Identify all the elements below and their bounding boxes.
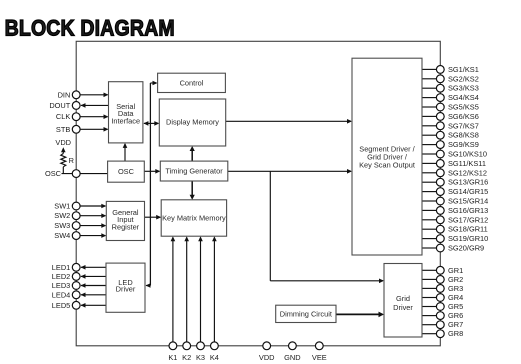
wire Dimming Circuit to Grid Driver bbox=[336, 313, 383, 315]
pin SG17/GR12 bbox=[436, 216, 444, 224]
wire Segment Driver to SG16 bbox=[422, 209, 437, 211]
pin LED3 bbox=[72, 282, 80, 290]
pin GR1 bbox=[436, 266, 444, 274]
pin DIN bbox=[72, 91, 80, 99]
block Control bbox=[158, 73, 226, 92]
svg-text:SG8/KS8: SG8/KS8 bbox=[448, 131, 479, 140]
pin VEE (bottom) bbox=[315, 342, 323, 350]
wire Segment Driver to SG6 bbox=[422, 115, 437, 117]
svg-text:Interface: Interface bbox=[111, 116, 140, 125]
pin GR7 bbox=[436, 321, 444, 329]
svg-text:Key Matrix Memory: Key Matrix Memory bbox=[162, 213, 226, 222]
wire K3 to Key Matrix Memory bbox=[200, 238, 202, 346]
wire K4 to Key Matrix Memory bbox=[213, 238, 215, 346]
svg-text:SW2: SW2 bbox=[54, 211, 70, 220]
block Display Memory bbox=[159, 99, 225, 146]
svg-text:STB: STB bbox=[56, 125, 70, 134]
pin SW1 bbox=[72, 202, 80, 210]
wire Segment Driver to SG2 bbox=[422, 78, 437, 80]
svg-text:SG9/KS9: SG9/KS9 bbox=[448, 140, 479, 149]
wire Segment Driver to SG7 bbox=[422, 125, 437, 127]
pin CLK bbox=[72, 113, 80, 121]
wire Segment Driver to SG12 bbox=[422, 172, 437, 174]
wire DIN to Serial Data Interface bbox=[80, 94, 108, 96]
svg-text:Control: Control bbox=[180, 78, 204, 87]
block Timing Generator bbox=[160, 161, 228, 181]
wire Timing Generator branch to Grid Driver bbox=[269, 171, 271, 280]
svg-text:Driver: Driver bbox=[393, 303, 413, 312]
wire LED Driver to LED1 bbox=[81, 266, 106, 268]
svg-text:R: R bbox=[69, 156, 74, 165]
pin LED5 bbox=[72, 301, 80, 309]
svg-text:SG12/KS12: SG12/KS12 bbox=[448, 168, 487, 177]
chip boundary box bbox=[76, 41, 440, 346]
wire Segment Driver to SG15 bbox=[422, 200, 437, 202]
wire Segment Driver to SG18 bbox=[422, 228, 437, 230]
wire Timing Generator to Key Matrix Memory bbox=[191, 181, 193, 198]
wire OSC pin to OSC block bbox=[62, 173, 108, 175]
wire Segment Driver to SG1 bbox=[422, 68, 437, 70]
svg-text:Grid: Grid bbox=[396, 294, 410, 303]
wire Grid Driver to GR2 bbox=[422, 278, 437, 280]
wire OSC block to Timing Generator bbox=[144, 170, 159, 172]
pin SW4 bbox=[72, 232, 80, 240]
pin SW2 bbox=[72, 212, 80, 220]
pin K1 (bottom) bbox=[169, 342, 177, 350]
svg-text:GND: GND bbox=[284, 353, 300, 362]
svg-text:LED2: LED2 bbox=[52, 272, 71, 281]
svg-text:SG18/GR11: SG18/GR11 bbox=[448, 225, 488, 234]
pin LED1 bbox=[72, 263, 80, 271]
wire Segment Driver to SG11 bbox=[422, 162, 437, 164]
pin SG18/GR11 bbox=[436, 225, 444, 233]
svg-text:SG16/GR13: SG16/GR13 bbox=[448, 206, 488, 215]
svg-text:SG2/KS2: SG2/KS2 bbox=[448, 74, 479, 83]
block Segment Driver / Grid Driver / Key Scan Output bbox=[352, 58, 422, 255]
pin K3 (bottom) bbox=[197, 342, 205, 350]
pin GND (bottom) bbox=[289, 342, 297, 350]
wire Timing Generator to Display Memory bbox=[191, 148, 193, 162]
svg-text:Dimming Circuit: Dimming Circuit bbox=[280, 309, 332, 318]
wire LED Driver to LED5 bbox=[81, 304, 106, 306]
svg-text:SW1: SW1 bbox=[54, 202, 70, 211]
wire Segment Driver to SG14 bbox=[422, 191, 437, 193]
svg-text:SG1/KS1: SG1/KS1 bbox=[448, 65, 479, 74]
svg-text:OSC: OSC bbox=[118, 167, 135, 176]
wire LED Driver to LED4 bbox=[81, 294, 106, 296]
wire Segment Driver to SG3 bbox=[422, 87, 437, 89]
pin SW3 bbox=[72, 222, 80, 230]
pin VDD (bottom) bbox=[263, 342, 271, 350]
wire SW4 to General Input Register bbox=[80, 235, 105, 237]
svg-text:VDD: VDD bbox=[259, 353, 275, 362]
wire Grid Driver to GR5 bbox=[422, 306, 437, 308]
wire Serial Data Interface to DOUT bbox=[81, 104, 109, 106]
pin SG8/KS8 bbox=[436, 131, 444, 139]
svg-text:Timing Generator: Timing Generator bbox=[165, 167, 223, 176]
pin SG11/KS11 bbox=[436, 160, 444, 168]
pin SG2/KS2 bbox=[436, 75, 444, 83]
svg-text:GR2: GR2 bbox=[448, 275, 463, 284]
wire General Input Register to Key Matrix Memory bbox=[145, 216, 161, 218]
pin K4 (bottom) bbox=[211, 342, 219, 350]
svg-text:SG7/KS7: SG7/KS7 bbox=[448, 121, 479, 130]
block LED Driver bbox=[106, 263, 145, 312]
svg-text:SG5/KS5: SG5/KS5 bbox=[448, 103, 479, 112]
svg-text:SW4: SW4 bbox=[54, 231, 70, 240]
svg-text:GR8: GR8 bbox=[448, 329, 463, 338]
pin GR5 bbox=[436, 303, 444, 311]
wire Segment Driver to SG13 bbox=[422, 181, 437, 183]
pin STB bbox=[72, 125, 80, 133]
pin SG6/KS6 bbox=[436, 113, 444, 121]
svg-text:K2: K2 bbox=[182, 353, 191, 362]
wire Segment Driver to SG4 bbox=[422, 97, 437, 99]
svg-text:OSC: OSC bbox=[45, 169, 62, 178]
pin SG16/GR13 bbox=[436, 207, 444, 215]
svg-text:VEE: VEE bbox=[312, 353, 327, 362]
svg-text:GR1: GR1 bbox=[448, 266, 463, 275]
wire SW3 to General Input Register bbox=[80, 225, 105, 227]
block Dimming Circuit bbox=[276, 305, 336, 322]
wire SW1 to General Input Register bbox=[80, 205, 105, 207]
wire K2 to Key Matrix Memory bbox=[186, 238, 188, 346]
wire Grid Driver to GR7 bbox=[422, 324, 437, 326]
pin DOUT bbox=[72, 102, 80, 110]
pin LED2 bbox=[72, 273, 80, 281]
svg-text:DOUT: DOUT bbox=[49, 101, 70, 110]
wire OSC block to Serial Data Interface bbox=[124, 144, 126, 161]
pin GR8 bbox=[436, 330, 444, 338]
svg-text:SG10/KS10: SG10/KS10 bbox=[448, 150, 487, 159]
wire K1 to Key Matrix Memory bbox=[172, 238, 174, 346]
svg-text:SG19/GR10: SG19/GR10 bbox=[448, 234, 488, 243]
svg-text:SG17/GR12: SG17/GR12 bbox=[448, 215, 488, 224]
wire Segment Driver to SG20 bbox=[422, 247, 437, 249]
svg-text:LED3: LED3 bbox=[52, 281, 71, 290]
block OSC bbox=[108, 161, 145, 182]
pin SG13/GR16 bbox=[436, 178, 444, 186]
svg-text:SG11/KS11: SG11/KS11 bbox=[448, 159, 486, 168]
svg-text:BLOCK DIAGRAM: BLOCK DIAGRAM bbox=[5, 16, 175, 41]
wire Display Memory to Segment Driver bbox=[226, 120, 351, 122]
pin SG20/GR9 bbox=[436, 244, 444, 252]
svg-text:LED5: LED5 bbox=[52, 301, 71, 310]
pin SG12/KS12 bbox=[436, 169, 444, 177]
svg-text:LED4: LED4 bbox=[52, 290, 71, 299]
svg-text:SG4/KS4: SG4/KS4 bbox=[448, 93, 479, 102]
wire Grid Driver to GR8 bbox=[422, 333, 437, 335]
wire CLK to Serial Data Interface bbox=[80, 116, 108, 118]
svg-text:K3: K3 bbox=[196, 353, 205, 362]
svg-text:CLK: CLK bbox=[56, 112, 70, 121]
pin LED4 bbox=[72, 291, 80, 299]
wire Segment Driver to SG10 bbox=[422, 153, 437, 155]
svg-text:SG6/KS6: SG6/KS6 bbox=[448, 112, 479, 121]
svg-text:K1: K1 bbox=[168, 353, 177, 362]
svg-text:SG13/GR16: SG13/GR16 bbox=[448, 178, 488, 187]
pin SG10/KS10 bbox=[436, 150, 444, 158]
svg-text:VDD: VDD bbox=[55, 138, 71, 147]
svg-text:Key Scan Output: Key Scan Output bbox=[359, 160, 415, 169]
wire Segment Driver to SG9 bbox=[422, 144, 437, 146]
bus wire to LED Driver bbox=[146, 285, 150, 287]
svg-text:DIN: DIN bbox=[58, 90, 71, 99]
pin GR6 bbox=[436, 312, 444, 320]
pin GR3 bbox=[436, 285, 444, 293]
wire Segment Driver to SG5 bbox=[422, 106, 437, 108]
bus wire to Control bbox=[149, 83, 151, 286]
wire Grid Driver to GR4 bbox=[422, 297, 437, 299]
pin SG4/KS4 bbox=[436, 94, 444, 102]
wire Segment Driver to SG19 bbox=[422, 238, 437, 240]
wire Timing Generator to Segment Driver bbox=[228, 170, 351, 172]
pin SG5/KS5 bbox=[436, 103, 444, 111]
svg-text:SG20/GR9: SG20/GR9 bbox=[448, 244, 484, 253]
wire Serial Data Interface to Display Memory (bidirectional) bbox=[144, 122, 158, 124]
pin SG19/GR10 bbox=[436, 235, 444, 243]
svg-text:GR4: GR4 bbox=[448, 293, 463, 302]
svg-text:GR7: GR7 bbox=[448, 320, 463, 329]
pin SG15/GR14 bbox=[436, 197, 444, 205]
wire STB to Serial Data Interface bbox=[80, 128, 108, 130]
wire resistor to OSC net bbox=[62, 167, 64, 174]
svg-text:LED1: LED1 bbox=[52, 263, 71, 272]
wire Grid Driver to GR6 bbox=[422, 315, 437, 317]
pin SG9/KS9 bbox=[436, 141, 444, 149]
block Grid Driver bbox=[384, 264, 422, 338]
wire SW2 to General Input Register bbox=[80, 215, 105, 217]
svg-text:SG3/KS3: SG3/KS3 bbox=[448, 84, 479, 93]
svg-text:GR6: GR6 bbox=[448, 311, 463, 320]
wire pull-up to VDD (arrow up) bbox=[62, 149, 64, 154]
block Serial Data Interface bbox=[109, 82, 143, 143]
wire Segment Driver to SG17 bbox=[422, 219, 437, 221]
resistor R bbox=[61, 154, 66, 167]
svg-text:Display Memory: Display Memory bbox=[166, 118, 219, 127]
svg-text:SG15/GR14: SG15/GR14 bbox=[448, 197, 488, 206]
pin GR4 bbox=[436, 294, 444, 302]
wire Grid Driver to GR3 bbox=[422, 287, 437, 289]
pin SG3/KS3 bbox=[436, 84, 444, 92]
pin SG14/GR15 bbox=[436, 188, 444, 196]
pin OSC bbox=[72, 170, 80, 178]
wire LED Driver to LED3 bbox=[81, 285, 106, 287]
svg-text:GR3: GR3 bbox=[448, 284, 463, 293]
pin GR2 bbox=[436, 276, 444, 284]
svg-text:SW3: SW3 bbox=[54, 221, 70, 230]
pin SG7/KS7 bbox=[436, 122, 444, 130]
svg-text:K4: K4 bbox=[210, 353, 219, 362]
svg-text:Register: Register bbox=[112, 223, 140, 232]
pin SG1/KS1 bbox=[436, 66, 444, 74]
block General Input Register bbox=[106, 201, 144, 240]
pin K2 (bottom) bbox=[183, 342, 191, 350]
svg-text:Driver: Driver bbox=[116, 285, 136, 294]
wire LED Driver to LED2 bbox=[81, 275, 106, 277]
svg-text:SG14/GR15: SG14/GR15 bbox=[448, 187, 488, 196]
svg-text:GR5: GR5 bbox=[448, 302, 463, 311]
block Key Matrix Memory bbox=[161, 200, 226, 236]
wire Segment Driver to SG8 bbox=[422, 134, 437, 136]
wire Grid Driver to GR1 bbox=[422, 269, 437, 271]
